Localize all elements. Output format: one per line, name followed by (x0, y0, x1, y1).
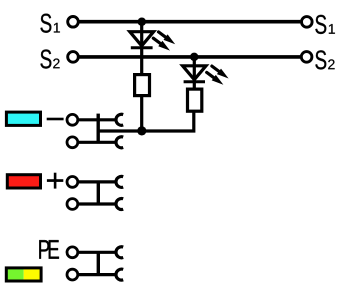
label S1 right: sub 1 (329, 24, 335, 34)
label S2 right: S (315, 50, 326, 69)
label plus (47, 173, 63, 189)
marker cyan terminal (6, 112, 40, 125)
wire LED1 anode lead (140, 22, 143, 75)
LED D1 triangle (130, 32, 154, 46)
LED D1 emission arrow upper (159, 32, 176, 44)
node junction on S1 bus (138, 17, 147, 26)
LED D2 triangle (183, 66, 206, 80)
wire S2 bus (80, 55, 301, 59)
node junction common (137, 126, 146, 135)
node S2 right terminal (301, 52, 312, 63)
wire plus upper (79, 180, 116, 183)
label S2 right: sub 2 (328, 59, 334, 69)
node plus contact lower (67, 199, 78, 210)
wire PE bridge bar (97, 252, 100, 274)
wire PE upper (79, 251, 116, 254)
wire LED2 anode lead (193, 57, 196, 89)
label PE: E (49, 240, 59, 259)
label S1 right: S (315, 15, 326, 34)
node plus contact upper (67, 177, 78, 188)
node junction on S2 bus (190, 53, 199, 62)
contact socket PE lower (116, 269, 123, 280)
LED D1 emission arrow lower (153, 38, 170, 50)
contact socket minus lower (116, 137, 123, 148)
contact socket minus upper (116, 114, 123, 125)
node S1 left terminal (68, 17, 79, 28)
LED D2 cathode bar (184, 80, 205, 83)
wire minus bridge bar (96, 114, 99, 143)
wire S1 bus (80, 20, 301, 24)
resistor R2 (188, 89, 202, 111)
LED D2 emission arrow upper (212, 66, 229, 78)
label S2 left: S (40, 49, 51, 68)
LED D2 emission arrow lower (207, 72, 224, 84)
wire minus lower (79, 141, 116, 144)
label S1 left: S (40, 14, 51, 33)
node S1 right terminal (302, 17, 313, 28)
node minus contact upper (67, 114, 78, 125)
LED D1 cathode bar (131, 46, 153, 49)
node PE contact lower (67, 269, 78, 280)
node S2 left terminal (68, 52, 79, 63)
resistor R1 (135, 75, 150, 96)
contact socket PE upper (116, 247, 123, 258)
wire plus bridge bar (97, 182, 100, 204)
contact socket plus lower (116, 199, 123, 210)
contact socket plus upper (116, 176, 123, 187)
wire R1 to junction (140, 96, 143, 131)
label minus (47, 118, 64, 121)
node minus contact lower (67, 137, 78, 148)
wire plus lower (79, 202, 116, 205)
marker red terminal (7, 175, 40, 188)
label S2 left: sub 2 (53, 59, 59, 69)
wire minus upper (79, 118, 116, 121)
node PE contact upper (67, 247, 78, 258)
marker green-yellow PE terminal (5, 267, 42, 283)
label PE: P (39, 240, 49, 259)
wire common bus to R2 (98, 111, 194, 131)
wire PE lower (79, 273, 116, 276)
label S1 left: sub 1 (54, 23, 60, 33)
